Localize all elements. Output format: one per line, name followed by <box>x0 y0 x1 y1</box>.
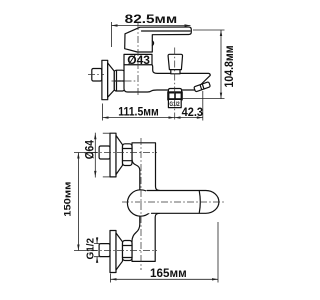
svg-text:150мм: 150мм <box>63 182 74 217</box>
dim 165 left ext <box>110 274 112 283</box>
centerline inlet axis <box>112 80 138 82</box>
dims arrows <box>103 116 203 118</box>
svg-text:G1/2: G1/2 <box>85 237 96 259</box>
lever inner line <box>142 30 191 32</box>
dim G1/2 lines <box>96 237 98 263</box>
centerline wall stub axis <box>88 74 104 76</box>
nut chamfer line <box>116 71 118 91</box>
nut mid line <box>114 80 124 82</box>
bottom hex nut <box>123 241 133 261</box>
dim 104.8 line <box>220 30 222 99</box>
diverter stem <box>171 70 180 74</box>
bottom cone <box>116 233 123 270</box>
top hex nut <box>123 144 133 166</box>
shower outlet flange <box>168 89 181 93</box>
dim 82.5 left ext <box>111 22 113 47</box>
dims 111.5/42.3 line <box>103 117 203 119</box>
svg-text:Ø43: Ø43 <box>127 53 150 67</box>
top escutcheon disk <box>110 133 116 177</box>
dim 82.5 arrows <box>112 24 191 26</box>
dim 150 arrows <box>77 153 79 251</box>
dim 42.3 right ext <box>202 91 204 121</box>
dim 150 ext bottom <box>74 250 97 252</box>
spout front view fill <box>146 191 219 214</box>
centerline bottom conn axis <box>91 250 157 252</box>
handle cap + lever <box>125 27 192 52</box>
svg-text:165мм: 165мм <box>150 266 187 280</box>
dim 150 ext top <box>74 152 97 154</box>
bottom escutcheon disk <box>110 231 116 273</box>
dim G1/2 arrows <box>96 238 98 263</box>
wire stub pipe <box>92 69 102 82</box>
outlet box divider <box>174 92 176 99</box>
outlet lower box <box>168 99 181 107</box>
valve bulge <box>127 190 153 216</box>
dim O64 ext top <box>103 132 110 134</box>
bottom stub <box>99 244 110 257</box>
central column <box>132 143 160 262</box>
faucet body with spout arm <box>124 65 210 92</box>
dim 104.8: top ext <box>193 29 225 31</box>
dim 104.8 bottom ext <box>182 98 225 100</box>
centerline spout axis <box>122 201 226 203</box>
spout cap line <box>199 191 200 213</box>
centerline top conn axis <box>91 152 157 154</box>
escutcheon cone <box>108 63 115 97</box>
dim 82.5 line <box>112 25 191 27</box>
dim O64 line <box>94 133 96 178</box>
dim 165 arrows <box>111 278 219 280</box>
top cone <box>116 136 123 175</box>
dim 104.8 arrows <box>220 30 222 99</box>
spout front view outline <box>147 191 219 214</box>
shower outlet heavy box <box>168 92 181 99</box>
top stub <box>99 146 110 159</box>
top nut facets <box>123 149 133 161</box>
dim 165 line <box>111 278 219 280</box>
aerator <box>194 82 211 92</box>
centerline diverter axis <box>174 48 176 121</box>
dim 165 right ext <box>217 222 219 283</box>
bottom nut facets <box>123 246 133 258</box>
centerline vertical body axis <box>137 23 139 96</box>
svg-text:104.8мм: 104.8мм <box>224 46 236 88</box>
dim O64 arrows <box>94 133 96 177</box>
centerline vertical axis <box>140 138 142 270</box>
hex nut <box>114 70 124 91</box>
escutcheon disk <box>102 60 108 99</box>
dim 111.5 left ext <box>102 104 104 121</box>
svg-text:111.5мм: 111.5мм <box>118 106 159 118</box>
dim G1/2 ticks <box>94 244 101 257</box>
svg-text:Ø64: Ø64 <box>85 140 97 160</box>
diverter knob <box>168 54 182 69</box>
dim O64 ext bottom <box>103 176 110 178</box>
dim 150 line <box>77 153 79 251</box>
svg-text:42.3: 42.3 <box>182 105 204 119</box>
svg-text:82.5мм: 82.5мм <box>125 14 178 26</box>
cap hinge bump <box>152 41 153 46</box>
O43 band <box>124 54 152 64</box>
